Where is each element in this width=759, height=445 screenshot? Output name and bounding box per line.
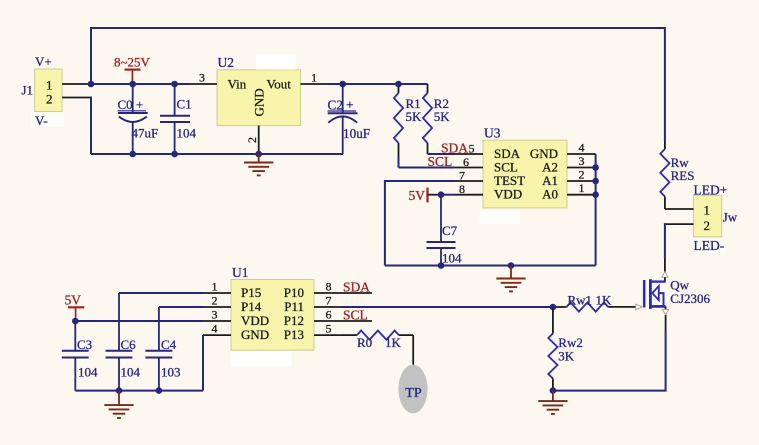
wire P14 to C4 — [159, 307, 203, 351]
svg-text:3K: 3K — [558, 349, 575, 364]
svg-text:3: 3 — [199, 71, 205, 85]
capacitor C4 103 — [145, 337, 180, 391]
svg-text:GND: GND — [252, 88, 267, 116]
svg-text:P15: P15 — [241, 285, 261, 300]
wire Vout net — [329, 83, 428, 85]
svg-text:P13: P13 — [284, 327, 304, 342]
svg-text:GND: GND — [241, 327, 269, 342]
node J1 pin1 junction — [88, 81, 95, 88]
node U2 GND junction — [255, 151, 262, 158]
U1 pin 8 P10 — [314, 280, 342, 294]
node ground stem junction — [508, 262, 515, 269]
resistor Rw RES — [660, 141, 694, 209]
U3 pin 7 TEST — [455, 168, 483, 182]
capacitor C1 104 — [160, 84, 197, 154]
capacitor C0 47uF — [118, 84, 159, 154]
svg-text:7: 7 — [459, 168, 465, 182]
svg-text:Vout: Vout — [267, 77, 292, 92]
svg-text:2: 2 — [704, 218, 711, 233]
U3 pin 2 A1 — [567, 167, 596, 181]
svg-text:1: 1 — [579, 181, 585, 195]
svg-text:C4: C4 — [161, 337, 177, 352]
svg-text:RES: RES — [671, 168, 695, 183]
wire V+ rail J1 to U2 — [91, 83, 189, 85]
svg-text:C3: C3 — [77, 337, 92, 352]
svg-text:4: 4 — [579, 140, 585, 154]
svg-text:2: 2 — [212, 294, 218, 308]
svg-text:5K: 5K — [434, 109, 451, 124]
net label SDA at U1 — [342, 280, 372, 295]
svg-text:V-: V- — [35, 113, 48, 128]
svg-text:R0: R0 — [357, 335, 372, 350]
U3 pin 3 A2 — [567, 154, 596, 168]
node A0 junction — [592, 191, 599, 198]
connector Jw — [692, 182, 738, 253]
ground below U2 — [244, 154, 273, 175]
wire Qw source to ground rail — [553, 330, 666, 391]
capacitor C3 104 — [62, 321, 98, 391]
node A2 junction — [592, 164, 599, 171]
svg-text:LED-: LED- — [694, 238, 725, 253]
svg-text:8~25V: 8~25V — [114, 55, 151, 70]
wire SDA net to U3 — [428, 153, 456, 155]
ground below Rw2 — [538, 391, 567, 414]
svg-text:3: 3 — [579, 154, 585, 168]
svg-text:VDD: VDD — [494, 187, 522, 202]
wire P15 to C6 — [119, 293, 203, 351]
svg-text:U3: U3 — [484, 126, 501, 141]
node Rw2 bottom junction — [550, 387, 557, 394]
svg-text:104: 104 — [121, 365, 141, 380]
svg-text:2: 2 — [579, 167, 585, 181]
svg-text:P11: P11 — [284, 299, 304, 314]
svg-text:CJ2306: CJ2306 — [670, 291, 710, 306]
node C4 bottom junction — [156, 387, 163, 394]
J1 pin 1 — [62, 83, 90, 85]
svg-text:1: 1 — [311, 71, 317, 85]
node R1 top junction — [395, 81, 402, 88]
wire 5V rail to VDD — [75, 320, 203, 322]
U1 pin 7 P11 — [314, 294, 342, 308]
power net 5V at U3 — [409, 188, 442, 203]
ground below C6 — [104, 391, 133, 418]
svg-text:C1: C1 — [177, 97, 192, 112]
svg-text:103: 103 — [161, 365, 181, 380]
node VDD / C7 junction — [438, 191, 445, 198]
svg-text:SCL: SCL — [428, 154, 453, 169]
test point TP — [398, 335, 427, 413]
node C1 top junction — [171, 81, 178, 88]
svg-text:8: 8 — [459, 182, 465, 196]
resistor Rw2 3K — [548, 307, 583, 391]
svg-text:Vin: Vin — [228, 77, 247, 92]
svg-text:6: 6 — [463, 155, 469, 169]
svg-text:A0: A0 — [542, 187, 558, 202]
wire U3 ground rail — [385, 265, 596, 267]
U2 pin 3 Vin — [189, 71, 217, 85]
svg-text:5K: 5K — [406, 109, 423, 124]
wire GND pin4 down — [202, 335, 204, 391]
wire P11 net to Rw1 — [342, 306, 553, 308]
resistor Rw1 1K — [553, 293, 612, 312]
svg-text:TP: TP — [405, 386, 422, 401]
wire V- from J1 pin2 down — [90, 98, 91, 155]
J1 pin 2 — [62, 97, 90, 99]
svg-text:1: 1 — [46, 78, 53, 93]
svg-text:P14: P14 — [241, 299, 262, 314]
wire A0-A2-GND bus — [595, 154, 597, 266]
resistor R1 5K — [394, 84, 422, 168]
svg-text:5: 5 — [469, 141, 475, 155]
Jw pin 1 — [666, 208, 694, 210]
svg-text:104: 104 — [442, 251, 462, 266]
node Rw1 / Rw2 junction — [550, 304, 557, 311]
U3 pin 8 VDD — [455, 182, 483, 196]
node C7 bottom junction — [438, 262, 445, 269]
svg-text:LED+: LED+ — [694, 182, 728, 197]
U1 pin 5 P13 — [314, 322, 342, 336]
resistor R0 1K — [342, 331, 413, 351]
svg-text:2: 2 — [245, 137, 259, 143]
svg-text:P10: P10 — [284, 285, 304, 300]
svg-text:Jw: Jw — [723, 210, 738, 225]
svg-text:8: 8 — [326, 280, 332, 294]
U1 pin 4 GND — [203, 322, 231, 336]
U3 pin 1 A0 — [567, 181, 596, 195]
svg-text:3: 3 — [212, 308, 218, 322]
U1 pin 1 P15 — [203, 280, 231, 294]
svg-text:1K: 1K — [385, 335, 402, 350]
wire input bottom rail — [91, 153, 343, 155]
Jw pin 2 — [666, 223, 694, 225]
U2 pin 1 Vout — [301, 71, 329, 85]
connector J1 — [22, 54, 65, 128]
net label SCL at U1 — [342, 308, 372, 323]
resistor R2 5K — [423, 84, 450, 154]
regulator U2 — [217, 54, 301, 126]
capacitor C2 10uF — [328, 84, 371, 154]
wire SCL net to U3 — [399, 167, 456, 169]
svg-text:10uF: 10uF — [343, 126, 370, 141]
node C6 bottom / ground junction — [116, 387, 123, 394]
capacitor C6 104 — [106, 337, 141, 391]
svg-text:5V: 5V — [409, 188, 426, 203]
Qw gate pin — [608, 304, 642, 309]
svg-text:V+: V+ — [35, 54, 52, 69]
svg-text:C6: C6 — [121, 337, 137, 352]
svg-text:1: 1 — [704, 203, 711, 218]
U2 pin 2 GND — [245, 126, 259, 154]
svg-text:1: 1 — [212, 280, 218, 294]
power net 8~25V — [114, 55, 151, 85]
svg-text:6: 6 — [326, 308, 332, 322]
power net 5V at U1 — [65, 293, 85, 322]
node C1 bottom junction — [171, 151, 178, 158]
svg-text:Rw1: Rw1 — [568, 293, 593, 308]
svg-text:104: 104 — [177, 126, 197, 141]
svg-text:J1: J1 — [22, 83, 34, 98]
U3 pin 4 GND — [567, 140, 596, 154]
wire TEST to ground rail — [385, 181, 455, 266]
svg-text:5V: 5V — [65, 293, 82, 308]
wire Rw to Jw pin1 — [665, 208, 666, 210]
wire Jw pin2 to Qw drain — [665, 224, 666, 258]
svg-text:2: 2 — [46, 92, 53, 107]
node C0 / 8~25V junction — [129, 81, 136, 88]
svg-text:P12: P12 — [284, 313, 304, 328]
node 5V junction — [72, 318, 79, 325]
node C2 top junction — [339, 81, 346, 88]
transistor Q Qw CJ2306 — [644, 258, 710, 330]
svg-text:VDD: VDD — [241, 313, 269, 328]
svg-text:104: 104 — [78, 365, 98, 380]
svg-text:C7: C7 — [442, 223, 458, 238]
svg-text:7: 7 — [326, 294, 332, 308]
IC U3 — [480, 126, 568, 224]
node C0 bottom junction — [129, 151, 136, 158]
U1 pin 3 VDD — [203, 308, 231, 322]
svg-text:U2: U2 — [218, 55, 235, 70]
capacitor C7 104 — [427, 195, 463, 266]
svg-text:C0 +: C0 + — [118, 97, 144, 112]
wire VDD net — [441, 194, 455, 196]
wire top rail V+ net — [91, 28, 665, 141]
U1 pin 6 P12 — [314, 308, 342, 322]
svg-text:4: 4 — [212, 322, 218, 336]
MCU U1 — [231, 265, 314, 367]
U3 pin 5 SDA — [455, 141, 483, 155]
node A1 junction — [592, 178, 599, 185]
net label SDA — [441, 140, 468, 155]
U1 pin 2 P14 — [203, 294, 231, 308]
svg-text:5: 5 — [326, 322, 332, 336]
ground below U3 rail — [496, 266, 525, 292]
U3 pin 6 SCL — [455, 155, 483, 169]
svg-text:1K: 1K — [596, 293, 613, 308]
svg-text:U1: U1 — [232, 265, 249, 280]
net label SCL — [428, 154, 453, 169]
svg-text:47uF: 47uF — [132, 126, 159, 141]
wire bottom ground rail — [75, 390, 203, 392]
svg-text:C2 +: C2 + — [328, 98, 354, 113]
